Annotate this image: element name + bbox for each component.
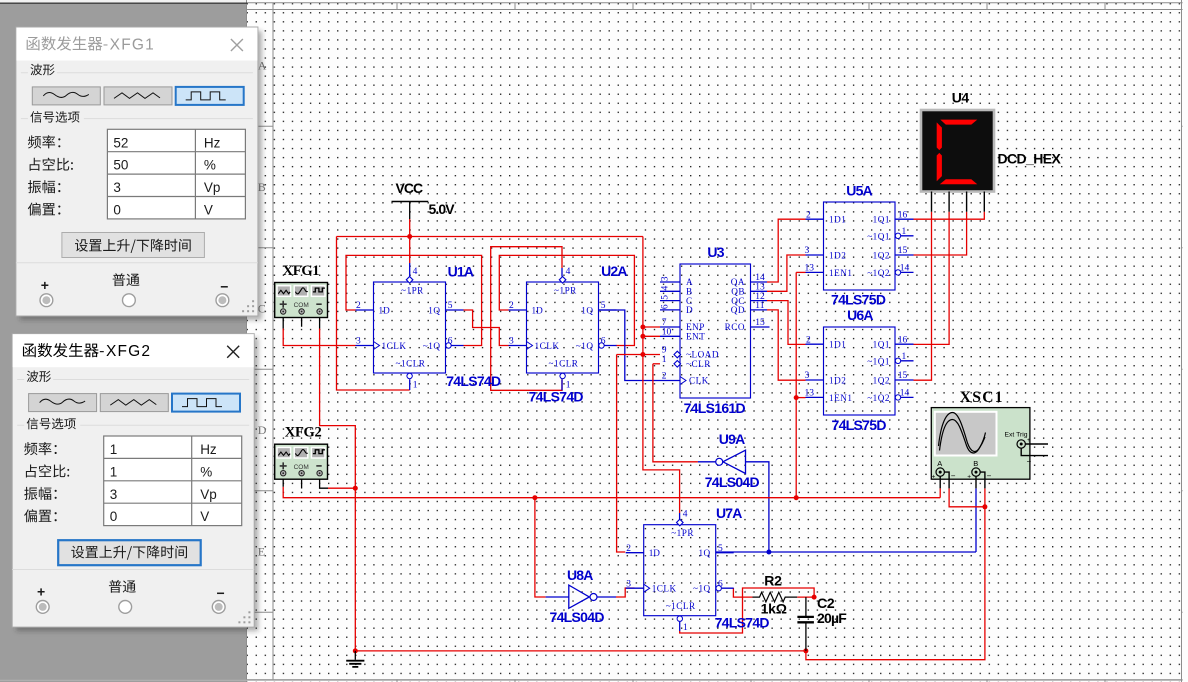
flip-flop U7A body xyxy=(644,525,716,616)
oscilloscope XSC1 xyxy=(931,408,1030,480)
svg-text:−: − xyxy=(220,279,228,295)
svg-text:2: 2 xyxy=(509,301,514,311)
svg-text:13: 13 xyxy=(805,389,815,399)
wire U9A input from U7A 1Q node (blue) xyxy=(746,462,769,552)
wire VCC vertical to U3 ENP/ENT/~LOAD and U7A ~1PR xyxy=(643,237,680,514)
svg-text:COM: COM xyxy=(294,464,309,471)
svg-text:U2A: U2A xyxy=(601,263,627,279)
U4 pins xyxy=(932,192,985,212)
svg-text:1CLK: 1CLK xyxy=(382,341,407,351)
wire U6A 1Q2 to display pin A xyxy=(914,212,932,381)
scope channel A terminal xyxy=(936,468,944,476)
dialog-XFG1 window xyxy=(20,31,262,320)
svg-text:3: 3 xyxy=(113,180,121,195)
svg-text:Ext Trig: Ext Trig xyxy=(1005,432,1028,439)
svg-text:1D: 1D xyxy=(532,306,544,316)
wire U7A 1Q node to scope B+ (blue) xyxy=(716,551,976,553)
svg-text:15: 15 xyxy=(898,246,908,256)
svg-text:COM: COM xyxy=(294,302,309,309)
svg-text:5.0V: 5.0V xyxy=(429,201,456,217)
wire U2A 1D from ~1Q xyxy=(499,255,634,345)
svg-text:52: 52 xyxy=(113,135,128,150)
svg-text:~CLR: ~CLR xyxy=(686,359,711,369)
svg-text:+: + xyxy=(932,474,936,481)
svg-text:+: + xyxy=(41,277,49,293)
inverter U9A 74LS04D xyxy=(723,450,746,473)
svg-text:3: 3 xyxy=(626,579,631,589)
U3 pin QC stub xyxy=(751,300,768,302)
svg-text:5: 5 xyxy=(661,295,671,300)
svg-text:+: + xyxy=(1027,437,1031,444)
svg-text:−: − xyxy=(987,472,992,481)
svg-text:XFG1: XFG1 xyxy=(110,36,155,53)
svg-text:RCO: RCO xyxy=(725,322,745,332)
wire scope A+ down to XFG2+ rail xyxy=(939,488,941,497)
svg-text:QD: QD xyxy=(731,305,745,315)
dialog-XFG1 waveform group xyxy=(30,64,42,76)
svg-text:1: 1 xyxy=(683,623,688,633)
wire U1A pin4 to VCC xyxy=(409,237,411,264)
svg-text:1Q2: 1Q2 xyxy=(873,251,890,261)
inverter U8A 74LS04D xyxy=(569,585,590,608)
svg-text:1EN1: 1EN1 xyxy=(829,268,852,278)
svg-text:2: 2 xyxy=(662,372,667,382)
svg-text:1: 1 xyxy=(902,227,907,237)
svg-text:1D2: 1D2 xyxy=(829,251,846,261)
svg-text:6: 6 xyxy=(601,337,606,347)
svg-text:1CLK: 1CLK xyxy=(652,584,677,594)
wire XFG1+ to U1A 1CLK xyxy=(283,329,355,346)
svg-text:B: B xyxy=(973,459,978,468)
wire U2A 1Q to U3 CLK (blue) xyxy=(599,310,681,381)
svg-text:~1CLR: ~1CLR xyxy=(666,601,696,611)
dialog-XFG2 rise/fall button xyxy=(58,540,201,565)
U3 pin D stub xyxy=(660,309,680,311)
wire U7A ~1CLR loop to R2/C2 node xyxy=(679,622,681,631)
svg-text:~1Q: ~1Q xyxy=(423,341,441,351)
wire XFG2+ long rail y=497.7 xyxy=(283,487,940,498)
wire U6A 1Q1 to display pin B xyxy=(914,212,950,345)
U3 pin C stub xyxy=(660,300,680,302)
dialog-XFG2 title xyxy=(23,344,36,358)
svg-text:50: 50 xyxy=(113,158,128,173)
dialog-XFG1 value table xyxy=(107,129,245,219)
node VCC junction xyxy=(407,234,412,239)
scope channel B terminal xyxy=(972,468,980,476)
svg-text:%: % xyxy=(200,464,212,479)
svg-text:Vp: Vp xyxy=(204,180,221,195)
svg-text:XFG2: XFG2 xyxy=(106,343,151,360)
resistor R2 1k xyxy=(753,592,798,602)
U4 segment f xyxy=(937,122,942,150)
svg-text:U5A: U5A xyxy=(846,183,872,199)
svg-text:V: V xyxy=(200,509,209,524)
wire U1A 1D from ~1Q xyxy=(346,255,482,345)
U4 segment d xyxy=(940,179,978,184)
svg-text:VCC: VCC xyxy=(396,180,423,196)
svg-text:+: + xyxy=(967,474,971,481)
wire U1A 1Q to U2A 1CLK xyxy=(463,310,508,346)
svg-text:CLK: CLK xyxy=(689,376,709,386)
U3 pin ENT stub xyxy=(660,335,680,337)
latch U6A 74LS75D body xyxy=(824,327,896,415)
svg-text:74LS74D: 74LS74D xyxy=(715,615,770,631)
svg-text:4: 4 xyxy=(413,267,418,277)
wire U7A ~1Q to R2 xyxy=(733,588,752,597)
U3 pin ~LOAD diamond xyxy=(674,351,681,358)
wire ~LOAD net to U7A 1D xyxy=(617,355,626,553)
svg-text:DCD_HEX: DCD_HEX xyxy=(998,150,1062,166)
svg-text:~1Q2: ~1Q2 xyxy=(867,393,890,403)
scope Ext Trig terminal xyxy=(1017,440,1025,448)
svg-text:+: + xyxy=(37,584,45,600)
svg-text:E: E xyxy=(258,545,265,559)
VCC rail wire xyxy=(337,236,643,238)
svg-text:4: 4 xyxy=(566,267,571,277)
svg-text:6: 6 xyxy=(448,337,453,347)
wire XFG2- join xyxy=(328,487,355,489)
svg-text:5: 5 xyxy=(601,301,606,311)
svg-text:XFG1: XFG1 xyxy=(283,263,320,279)
svg-text:15: 15 xyxy=(755,318,765,328)
svg-text:~1PR: ~1PR xyxy=(401,286,424,296)
wire U5A 1Q2 to display pin C xyxy=(914,212,967,255)
U4 segment e xyxy=(937,153,942,181)
svg-text:~1PR: ~1PR xyxy=(671,528,694,538)
svg-text:14: 14 xyxy=(900,264,910,274)
svg-text:74LS75D: 74LS75D xyxy=(831,292,886,308)
svg-text:74LS75D: 74LS75D xyxy=(832,417,887,433)
svg-text:~1Q1: ~1Q1 xyxy=(867,356,890,366)
wire U8A output to U7A 1CLK xyxy=(616,588,635,597)
wire 1EN chain to XFG2+ rail xyxy=(796,271,805,273)
svg-text:U9A: U9A xyxy=(719,431,745,447)
U3 pin A stub xyxy=(660,281,680,283)
generator XFG2 symbol xyxy=(275,444,328,479)
svg-text:U6A: U6A xyxy=(847,307,873,323)
U3 pin B stub xyxy=(660,290,680,292)
wire ground rail y=651 xyxy=(355,650,806,652)
wire XFG1- to ground xyxy=(320,329,356,651)
svg-text:16: 16 xyxy=(898,335,908,345)
svg-text:−: − xyxy=(1027,457,1032,466)
wire C2 bottom to scope A-/B- xyxy=(806,507,985,660)
generator XFG1 symbol xyxy=(275,283,328,318)
svg-text:1Q: 1Q xyxy=(428,306,440,316)
svg-text:1D1: 1D1 xyxy=(829,215,846,225)
XFG2 terminal stubs xyxy=(283,479,328,488)
svg-text:U4: U4 xyxy=(952,89,970,105)
svg-text:20µF: 20µF xyxy=(817,610,847,626)
svg-text:74LS74D: 74LS74D xyxy=(529,389,584,405)
svg-text:2: 2 xyxy=(806,335,811,345)
dialog-XFG2 signal options group xyxy=(27,418,38,430)
svg-text:~1Q1: ~1Q1 xyxy=(867,231,890,241)
svg-text:74LS74D: 74LS74D xyxy=(446,373,501,389)
svg-text:2: 2 xyxy=(626,544,631,554)
svg-text:0: 0 xyxy=(110,509,118,524)
U3 pin QA stub xyxy=(751,281,768,283)
svg-text:74LS161D: 74LS161D xyxy=(684,400,746,416)
svg-text:Vp: Vp xyxy=(200,487,217,502)
svg-text:1Q2: 1Q2 xyxy=(873,376,890,386)
svg-text:1Q: 1Q xyxy=(698,548,710,558)
svg-text:1kΩ: 1kΩ xyxy=(761,600,787,616)
dialog-XFG1 polarity row xyxy=(113,273,126,286)
svg-text:5: 5 xyxy=(448,301,453,311)
counter U3 74LS161D body xyxy=(680,264,751,398)
svg-text:74LS04D: 74LS04D xyxy=(705,474,760,490)
dialog-XFG1 title xyxy=(27,37,40,51)
svg-text:1Q1: 1Q1 xyxy=(873,340,890,350)
svg-text:U1A: U1A xyxy=(448,263,474,279)
U3 pin ENP stub xyxy=(660,326,680,328)
svg-text:5: 5 xyxy=(718,544,723,554)
svg-text:2: 2 xyxy=(806,210,811,220)
U3 pin RCO stub xyxy=(751,326,770,328)
svg-text:1Q1: 1Q1 xyxy=(873,215,890,225)
svg-text:3: 3 xyxy=(356,337,361,347)
svg-text:1D: 1D xyxy=(379,306,391,316)
U3 pin ~CLR diamond xyxy=(674,361,681,368)
svg-text:1EN1: 1EN1 xyxy=(829,393,852,403)
dialog-XFG2 window xyxy=(16,338,258,631)
latch U5A 74LS75D body xyxy=(824,202,896,290)
svg-text:2: 2 xyxy=(356,301,361,311)
flip-flop U2A body xyxy=(527,282,599,373)
svg-text:1D2: 1D2 xyxy=(829,376,846,386)
flip-flop U1A body xyxy=(374,282,446,373)
scope terminal leads xyxy=(940,472,985,488)
svg-text:XFG2: XFG2 xyxy=(285,424,322,440)
dialog-XFG2 close button xyxy=(227,346,239,358)
wire U3 ~CLR to U9A output xyxy=(653,363,660,365)
svg-text:13: 13 xyxy=(805,264,815,274)
U3 pin CLK triangle xyxy=(680,377,686,385)
svg-text:3: 3 xyxy=(805,246,810,256)
wire scope A- down xyxy=(949,488,985,506)
VCC symbol xyxy=(392,201,429,203)
svg-text:1Q: 1Q xyxy=(581,306,593,316)
svg-text:1: 1 xyxy=(902,352,907,362)
svg-text:ENT: ENT xyxy=(686,332,705,342)
svg-text:3: 3 xyxy=(110,487,118,502)
svg-text:3: 3 xyxy=(661,276,671,281)
svg-text:Hz: Hz xyxy=(204,135,221,150)
svg-text:V: V xyxy=(204,203,213,218)
svg-text:~1PR: ~1PR xyxy=(554,286,577,296)
dialog-XFG2 polarity row xyxy=(109,580,122,593)
U3 pin QB stub xyxy=(751,290,768,292)
svg-text:U8A: U8A xyxy=(567,567,593,583)
svg-text:1: 1 xyxy=(413,381,418,391)
svg-text:R2: R2 xyxy=(764,572,782,588)
svg-text:~1Q2: ~1Q2 xyxy=(867,268,890,278)
svg-text:−: − xyxy=(951,472,956,481)
svg-text:14: 14 xyxy=(900,389,910,399)
wire U1A ~1CLR loop to VCC rail xyxy=(337,237,410,391)
svg-text:Hz: Hz xyxy=(200,442,217,457)
svg-text:%: % xyxy=(204,158,216,173)
svg-text:1: 1 xyxy=(662,355,667,365)
svg-text:0: 0 xyxy=(113,203,121,218)
U4 segment a xyxy=(940,120,977,125)
svg-text:4: 4 xyxy=(661,286,671,291)
capacitor C2 20uF xyxy=(805,597,807,651)
svg-text:A: A xyxy=(937,459,942,468)
svg-text:1CLK: 1CLK xyxy=(535,341,560,351)
svg-text:6: 6 xyxy=(661,304,671,309)
dialog-XFG2 waveform group xyxy=(27,370,39,382)
wire U3 QB to U5A 1D2 xyxy=(767,255,806,291)
svg-text:16: 16 xyxy=(898,210,908,220)
svg-text:D: D xyxy=(258,423,267,437)
svg-text:74LS04D: 74LS04D xyxy=(550,609,605,625)
svg-text:−: − xyxy=(217,585,225,601)
svg-text:D: D xyxy=(686,305,693,315)
svg-text:~1CLR: ~1CLR xyxy=(549,359,579,369)
wire U3 QC to U6A 1D1 xyxy=(767,301,806,345)
svg-text:XSC1: XSC1 xyxy=(960,389,1004,406)
svg-text:4: 4 xyxy=(683,510,688,520)
svg-text:1D: 1D xyxy=(649,548,661,558)
svg-text:11: 11 xyxy=(755,301,764,311)
svg-text:3: 3 xyxy=(805,371,810,381)
wire U3 QA to U5A 1D1 xyxy=(767,219,806,282)
svg-text:10: 10 xyxy=(662,328,672,338)
svg-text:C2: C2 xyxy=(817,595,835,611)
sheet frame xyxy=(247,3,1188,10)
dialog-XFG1 signal options group xyxy=(30,111,41,123)
7-segment display U4 xyxy=(921,110,994,192)
wire U3 QD to U6A 1D2 xyxy=(767,310,806,380)
svg-text:6: 6 xyxy=(718,579,723,589)
wire U5A 1Q1 to display pin D xyxy=(914,212,985,220)
svg-text:3: 3 xyxy=(509,337,514,347)
U3 pin QD stub xyxy=(751,309,768,311)
svg-text:1: 1 xyxy=(110,464,118,479)
svg-text:~1CLR: ~1CLR xyxy=(396,359,426,369)
svg-text:U3: U3 xyxy=(707,244,724,260)
svg-text:~1Q: ~1Q xyxy=(576,341,594,351)
ground xyxy=(354,651,356,660)
svg-text:1: 1 xyxy=(110,442,118,457)
dialog-XFG2 value table xyxy=(104,436,242,526)
svg-text:15: 15 xyxy=(898,371,908,381)
svg-text:1D1: 1D1 xyxy=(829,340,846,350)
dialog-XFG1 rise/fall button xyxy=(62,233,205,258)
svg-text:U7A: U7A xyxy=(716,505,742,521)
wire U2A ~1PR ~1CLR loop xyxy=(491,247,562,391)
svg-text:~1Q: ~1Q xyxy=(693,584,711,594)
dialog-XFG1 close button xyxy=(231,39,243,51)
XFG1 terminal stubs xyxy=(283,318,319,329)
wire U8A input from XFG2+ rail xyxy=(535,498,546,597)
